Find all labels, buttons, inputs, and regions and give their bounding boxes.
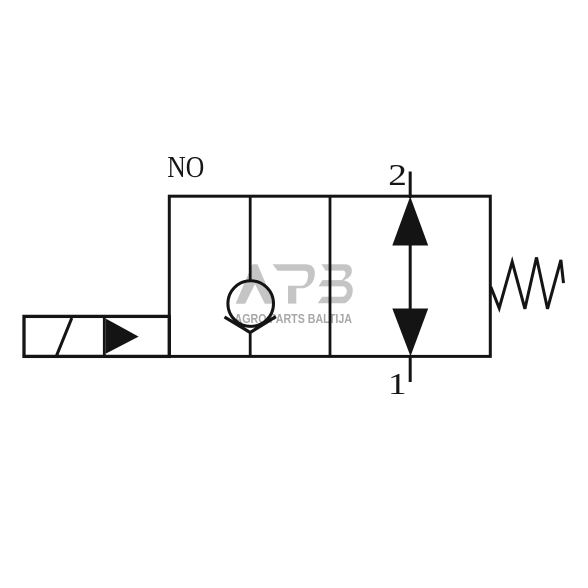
svg-text:2: 2: [388, 158, 407, 192]
check ball circle: [228, 281, 274, 327]
svg-text:1: 1: [388, 367, 407, 401]
svg-text:AGRO PARTS BALTIJA: AGRO PARTS BALTIJA: [235, 312, 353, 326]
divider line 2 (position divider right): [329, 196, 332, 356]
solenoid inner divider: [103, 316, 106, 356]
solenoid actuation arrow: [106, 319, 139, 354]
port 2 label: [388, 158, 407, 192]
svg-text:NO: NO: [167, 150, 204, 184]
watermark APB logo letter B: [318, 264, 353, 303]
divider line lower segment below check seat: [249, 331, 252, 356]
valve body: [169, 196, 490, 356]
port 1 stub line: [409, 355, 412, 382]
divider line upper segment (position divider left): [249, 196, 252, 282]
check seat chevron: [225, 317, 276, 333]
down arrow (flow): [392, 309, 428, 357]
port 1 label: [388, 367, 407, 401]
watermark APB logo letter P: [273, 264, 315, 303]
watermark APB logo letter A: [236, 264, 275, 304]
up arrow (flow): [392, 197, 428, 246]
flow path connecting line: [409, 244, 412, 310]
port 2 stub line: [409, 172, 412, 199]
solenoid coil box: [24, 316, 169, 356]
solenoid diagonal stroke: [56, 318, 72, 357]
spring: [491, 257, 564, 308]
